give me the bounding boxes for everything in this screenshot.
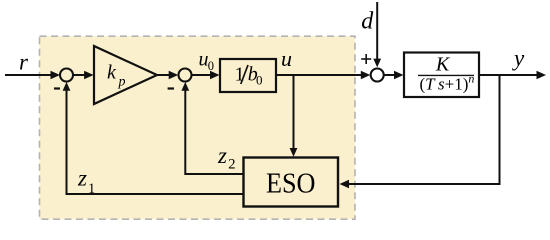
arrowhead into gain: [84, 71, 94, 79]
svg-text:1: 1: [88, 181, 95, 197]
svg-text:(T s+1)n: (T s+1)n: [420, 72, 475, 94]
ADRC dashed region: [40, 36, 356, 219]
summer 2: [179, 69, 192, 82]
wire z2 to summer2: [185, 91, 243, 175]
arrowhead feedback into ESO right: [340, 180, 350, 188]
summer 1: [60, 69, 73, 82]
svg-text:K: K: [435, 54, 451, 76]
fraction bar: [418, 74, 474, 76]
svg-text:p: p: [118, 75, 126, 90]
wire summer1 to gain: [74, 74, 87, 76]
summer 3: [371, 69, 384, 82]
wire summer3 to plant: [384, 74, 396, 76]
arrowhead into plant: [394, 71, 404, 79]
svg-text:z: z: [217, 143, 227, 168]
arrowhead into summer3: [361, 71, 371, 79]
arrowhead z1 into summer1: [63, 82, 71, 91]
svg-text:d: d: [361, 9, 374, 35]
svg-text:z: z: [77, 166, 87, 191]
arrowhead u into ESO top: [290, 148, 298, 157]
arrowhead d into summer3: [373, 59, 381, 68]
wire summer2 to b0 block: [192, 74, 213, 76]
minus sign of summer 2: [168, 87, 174, 89]
arrowhead z2 into summer2: [181, 82, 189, 91]
wire y feedback to ESO: [349, 75, 500, 184]
svg-text:2: 2: [228, 157, 235, 173]
wire r input: [5, 74, 52, 76]
arrowhead into b0 block: [210, 71, 220, 79]
wire b0 block to summer3: [276, 74, 362, 76]
svg-text:y: y: [512, 46, 525, 71]
svg-text:ESO: ESO: [266, 168, 316, 200]
svg-text:k: k: [107, 62, 117, 84]
wire u branch down to ESO: [293, 75, 295, 150]
svg-text:u: u: [281, 46, 292, 71]
arrowhead into summer2: [169, 71, 179, 79]
minus sign of summer 1: [54, 87, 60, 89]
svg-text:0: 0: [208, 59, 214, 73]
wire d input: [376, 2, 378, 60]
svg-text:r: r: [19, 50, 29, 75]
arrowhead into summer1: [51, 71, 61, 79]
ESO block: [244, 158, 339, 207]
wire z1 to summer1: [67, 91, 244, 195]
svg-text:1: 1: [235, 64, 245, 86]
plant block K/(Ts+1)^n: [404, 53, 479, 98]
wire plant output: [479, 74, 538, 76]
svg-text:0: 0: [256, 72, 263, 87]
wire gain to summer2: [157, 74, 171, 76]
gain block kp (triangle): [94, 46, 157, 104]
arrowhead output y: [537, 71, 547, 79]
block 1/b0: [220, 59, 276, 92]
plus sign of summer 3: [361, 54, 371, 64]
